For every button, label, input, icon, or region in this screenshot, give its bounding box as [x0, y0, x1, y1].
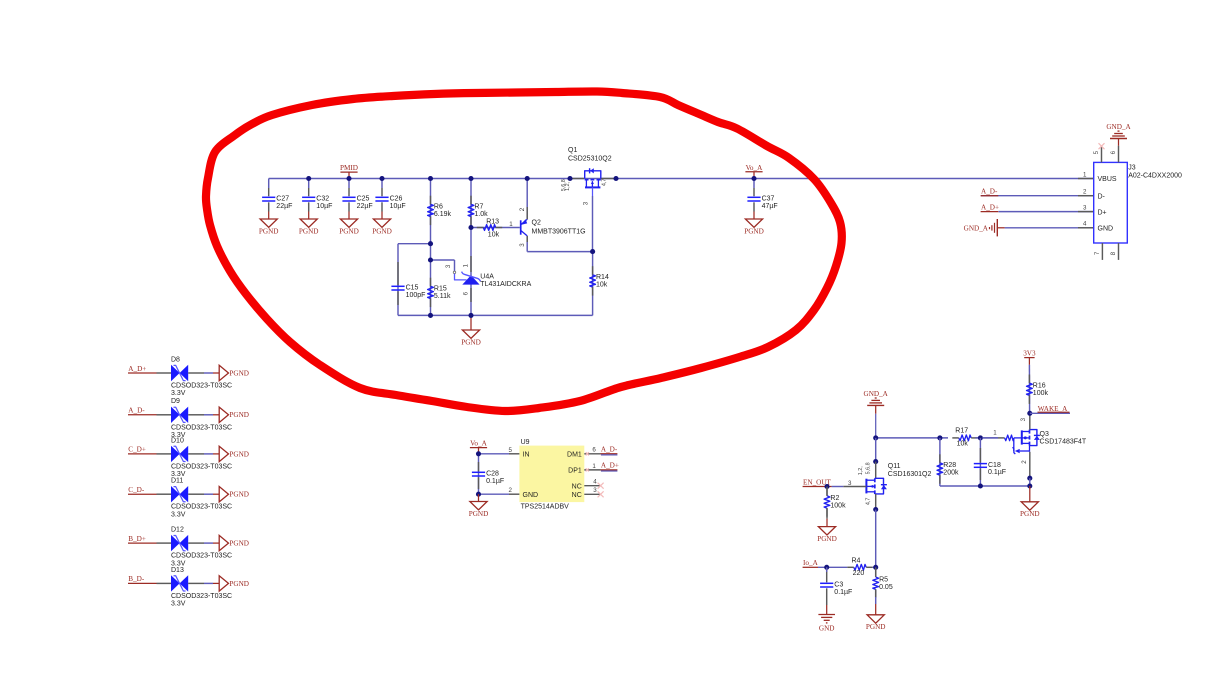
svg-text:NC: NC	[572, 483, 582, 490]
svg-text:PGND: PGND	[229, 450, 249, 458]
svg-text:PGND: PGND	[229, 540, 249, 548]
svg-text:3.3V: 3.3V	[171, 390, 186, 397]
svg-text:6: 6	[592, 447, 596, 454]
svg-text:10k: 10k	[488, 231, 500, 238]
svg-text:22µF: 22µF	[276, 203, 292, 210]
svg-text:TL431AIDCKRA: TL431AIDCKRA	[480, 281, 531, 288]
svg-text:2: 2	[509, 487, 513, 494]
svg-text:3: 3	[445, 264, 452, 268]
svg-text:D10: D10	[171, 437, 184, 444]
svg-text:1: 1	[1083, 171, 1087, 178]
svg-text:PGND: PGND	[259, 227, 279, 235]
svg-text:1: 1	[993, 430, 997, 437]
svg-text:NC: NC	[572, 492, 582, 499]
svg-text:C_D+: C_D+	[128, 446, 146, 454]
svg-text:C27: C27	[276, 196, 289, 203]
svg-text:5: 5	[509, 447, 513, 454]
svg-text:CSD16301Q2: CSD16301Q2	[888, 471, 932, 478]
svg-text:4,7: 4,7	[865, 498, 871, 506]
svg-text:220: 220	[853, 570, 865, 577]
svg-text:5: 5	[1093, 150, 1100, 154]
svg-text:GND_A: GND_A	[1106, 123, 1131, 131]
svg-text:3: 3	[593, 487, 597, 494]
svg-text:A_D-: A_D-	[128, 407, 145, 415]
svg-text:PGND: PGND	[1020, 510, 1040, 518]
svg-text:0.1µF: 0.1µF	[834, 589, 852, 596]
svg-text:B_D+: B_D+	[128, 535, 146, 543]
svg-text:R14: R14	[596, 274, 609, 281]
svg-text:PGND: PGND	[229, 491, 249, 499]
svg-text:GND_A: GND_A	[864, 390, 889, 398]
svg-text:Q3: Q3	[1040, 431, 1049, 438]
svg-text:47µF: 47µF	[762, 203, 778, 210]
svg-text:4: 4	[1083, 221, 1087, 228]
svg-text:6.19k: 6.19k	[434, 211, 452, 218]
svg-text:R4: R4	[852, 557, 861, 564]
svg-text:1,2,: 1,2,	[565, 181, 571, 190]
svg-text:1: 1	[463, 264, 470, 268]
svg-text:PGND: PGND	[469, 510, 489, 518]
svg-text:R16: R16	[1033, 382, 1046, 389]
svg-text:VBUS: VBUS	[1098, 176, 1117, 183]
svg-text:C37: C37	[762, 196, 775, 203]
svg-text:PGND: PGND	[866, 623, 886, 631]
svg-text:Q2: Q2	[532, 219, 541, 226]
svg-text:R15: R15	[434, 286, 447, 293]
svg-text:A_D+: A_D+	[981, 203, 999, 211]
svg-text:5,6,8: 5,6,8	[866, 462, 872, 474]
svg-text:J3: J3	[1128, 164, 1136, 171]
svg-text:D+: D+	[1098, 209, 1107, 216]
svg-text:4: 4	[593, 479, 597, 486]
svg-text:CDSOD323-T03SC: CDSOD323-T03SC	[171, 504, 232, 511]
svg-text:DP1: DP1	[568, 468, 582, 475]
svg-text:CDSOD323-T03SC: CDSOD323-T03SC	[171, 424, 232, 431]
svg-text:100k: 100k	[1033, 390, 1049, 397]
svg-text:3: 3	[583, 201, 590, 205]
svg-text:3.3V: 3.3V	[171, 511, 186, 518]
svg-text:3.3V: 3.3V	[171, 601, 186, 608]
svg-text:8: 8	[1110, 251, 1117, 255]
svg-text:1: 1	[509, 221, 513, 228]
svg-text:7: 7	[1094, 251, 1101, 255]
svg-text:D8: D8	[171, 356, 180, 363]
svg-text:CDSOD323-T03SC: CDSOD323-T03SC	[171, 383, 232, 390]
svg-text:R28: R28	[943, 462, 956, 469]
svg-text:6: 6	[1110, 150, 1117, 154]
svg-text:4,7: 4,7	[601, 179, 607, 187]
svg-text:C18: C18	[988, 462, 1001, 469]
svg-text:Vo_A: Vo_A	[470, 440, 487, 448]
svg-text:1,2,: 1,2,	[858, 466, 864, 475]
svg-text:PGND: PGND	[744, 227, 764, 235]
svg-text:PGND: PGND	[229, 369, 249, 377]
svg-text:GND: GND	[1098, 226, 1114, 233]
svg-text:200k: 200k	[943, 470, 959, 477]
svg-text:PGND: PGND	[817, 535, 837, 543]
svg-text:10µF: 10µF	[390, 203, 406, 210]
svg-text:10k: 10k	[596, 282, 608, 289]
svg-text:Q11: Q11	[888, 463, 901, 470]
svg-text:10µF: 10µF	[316, 203, 332, 210]
svg-text:CDSOD323-T03SC: CDSOD323-T03SC	[171, 593, 232, 600]
svg-text:0.05: 0.05	[879, 584, 893, 591]
svg-text:0.1µF: 0.1µF	[486, 478, 504, 485]
svg-text:100k: 100k	[830, 503, 846, 510]
svg-text:Io_A: Io_A	[803, 559, 819, 567]
svg-text:C_D-: C_D-	[128, 486, 145, 494]
svg-text:C26: C26	[390, 196, 403, 203]
svg-text:GND_A: GND_A	[964, 225, 989, 233]
svg-text:2: 2	[519, 207, 526, 211]
svg-text:C32: C32	[316, 196, 329, 203]
svg-text:CSD25310Q2: CSD25310Q2	[568, 155, 612, 162]
svg-text:PGND: PGND	[461, 338, 481, 346]
svg-text:DM1: DM1	[567, 451, 582, 458]
svg-text:MMBT3906TT1G: MMBT3906TT1G	[532, 228, 586, 235]
svg-text:CDSOD323-T03SC: CDSOD323-T03SC	[171, 463, 232, 470]
svg-text:TPS2514ADBV: TPS2514ADBV	[521, 504, 570, 511]
svg-text:R17: R17	[955, 428, 968, 435]
svg-text:PGND: PGND	[339, 227, 359, 235]
svg-text:PGND: PGND	[299, 227, 319, 235]
svg-text:B_D-: B_D-	[128, 575, 145, 583]
svg-text:D13: D13	[171, 567, 184, 574]
svg-text:C25: C25	[357, 196, 370, 203]
svg-text:D11: D11	[171, 478, 183, 485]
svg-text:R6: R6	[434, 204, 443, 211]
svg-text:PMID: PMID	[340, 164, 358, 172]
svg-text:Q1: Q1	[568, 147, 577, 154]
svg-text:2: 2	[1083, 189, 1087, 196]
svg-text:D9: D9	[171, 398, 180, 405]
svg-text:Vo_A: Vo_A	[746, 164, 763, 172]
svg-text:R2: R2	[830, 495, 839, 502]
svg-text:6: 6	[463, 291, 470, 295]
svg-text:PGND: PGND	[229, 411, 249, 419]
svg-text:0.1µF: 0.1µF	[988, 469, 1006, 476]
svg-text:R5: R5	[879, 576, 888, 583]
svg-text:100pF: 100pF	[406, 292, 426, 299]
svg-text:3: 3	[1083, 204, 1087, 211]
svg-text:C3: C3	[834, 582, 843, 589]
svg-text:U4A: U4A	[480, 273, 494, 280]
svg-text:C15: C15	[406, 285, 419, 292]
svg-text:D12: D12	[171, 527, 184, 534]
svg-text:3V3: 3V3	[1023, 350, 1036, 358]
svg-text:3: 3	[1020, 417, 1027, 421]
svg-text:10k: 10k	[957, 441, 969, 448]
svg-text:D-: D-	[1098, 193, 1106, 200]
svg-text:1.0k: 1.0k	[474, 211, 488, 218]
svg-text:GND: GND	[819, 625, 835, 633]
svg-text:PGND: PGND	[372, 227, 392, 235]
svg-text:C28: C28	[486, 471, 499, 478]
svg-text:PGND: PGND	[229, 580, 249, 588]
svg-text:A_D-: A_D-	[981, 188, 998, 196]
svg-text:22µF: 22µF	[357, 203, 373, 210]
svg-text:A02-C4DXX2000: A02-C4DXX2000	[1128, 172, 1182, 179]
svg-text:3: 3	[519, 243, 526, 247]
svg-text:GND: GND	[523, 492, 539, 499]
svg-text:1: 1	[592, 463, 596, 470]
svg-text:A_D-: A_D-	[601, 446, 618, 454]
svg-text:3: 3	[848, 480, 852, 487]
svg-text:CDSOD323-T03SC: CDSOD323-T03SC	[171, 553, 232, 560]
svg-text:2: 2	[1021, 460, 1028, 464]
svg-text:A_D+: A_D+	[601, 462, 619, 470]
svg-text:R13: R13	[486, 219, 499, 226]
svg-text:5.11k: 5.11k	[434, 293, 451, 300]
svg-text:R7: R7	[474, 204, 483, 211]
svg-text:CSD17483F4T: CSD17483F4T	[1040, 438, 1087, 445]
svg-text:A_D+: A_D+	[128, 365, 146, 373]
svg-text:IN: IN	[523, 451, 530, 458]
svg-text:U9: U9	[521, 439, 530, 446]
